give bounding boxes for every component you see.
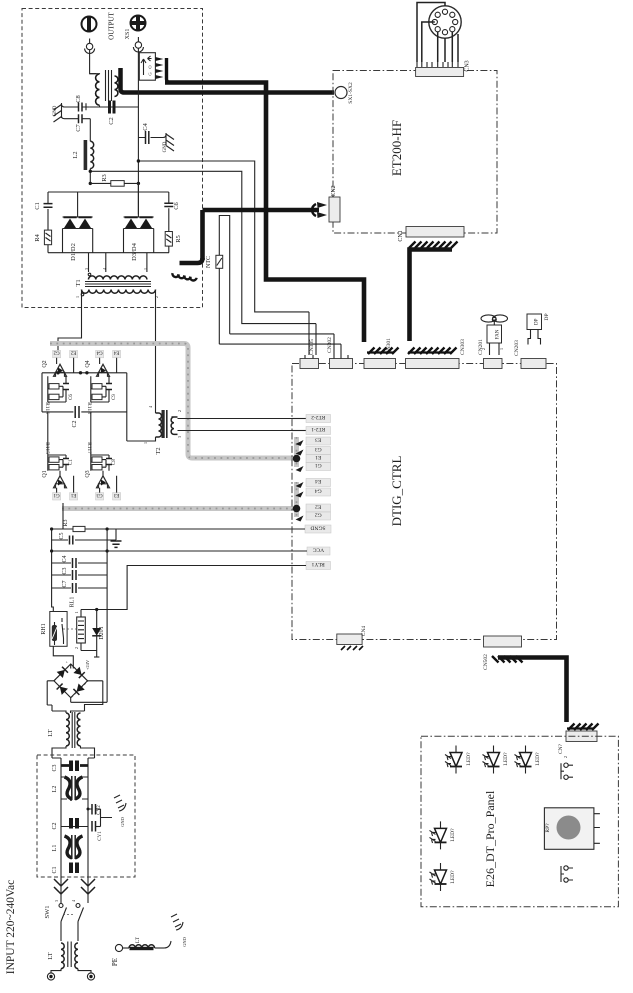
svg-text:G2: G2	[53, 350, 60, 355]
svg-text:RLY1: RLY1	[311, 561, 324, 567]
input transformer LT	[47, 942, 91, 974]
DTIG_CTRL board box	[292, 364, 557, 640]
svg-text:E4: E4	[113, 350, 119, 355]
thick cable CN1 to CN303	[410, 250, 453, 342]
svg-text:RP?: RP?	[545, 823, 551, 833]
svg-text:CN?: CN?	[558, 743, 564, 754]
gray harness vertical at DTIG edge	[294, 437, 299, 517]
svg-text:C8: C8	[75, 95, 82, 103]
panel connector CN	[558, 731, 597, 754]
row VCC	[52, 550, 307, 552]
connector CN502	[483, 636, 522, 670]
svg-text:L1: L1	[52, 845, 58, 852]
svg-text:C3: C3	[52, 764, 58, 771]
power switch SW1	[44, 899, 84, 941]
row C3	[52, 574, 108, 576]
thick cable XS1 to CN301	[165, 83, 364, 343]
rectifier top rail	[48, 191, 169, 193]
hatch fan into panel connector	[568, 724, 599, 731]
signal label VCC	[307, 547, 330, 555]
svg-text:1: 1	[499, 348, 504, 350]
output terminal minus	[82, 17, 97, 32]
node dots	[137, 159, 140, 162]
wire T1 primary right down to T2 pin4	[155, 300, 157, 408]
jack terminal 1	[85, 39, 95, 54]
svg-text:T1: T1	[75, 279, 82, 286]
svg-text:DP: DP	[544, 313, 550, 320]
signal label G4	[296, 492, 304, 498]
svg-text:VCC: VCC	[313, 547, 325, 553]
snubber Q3	[91, 455, 117, 471]
thick cable T1 curl to CN2	[203, 210, 320, 260]
wire RLY1 from relay	[81, 566, 306, 610]
PE choke LT	[129, 936, 164, 950]
thermal relay RH1	[41, 612, 77, 647]
svg-text:2: 2	[563, 756, 568, 758]
svg-text:LED?: LED?	[466, 752, 472, 766]
connector CN203	[514, 340, 546, 369]
capacitor C2 bold	[100, 101, 139, 114]
signal label G1	[296, 466, 304, 472]
transformer T2	[127, 405, 306, 455]
connector CN302	[327, 337, 353, 369]
svg-text:SX1-SX2: SX1-SX2	[348, 82, 354, 104]
svg-text:RL1: RL1	[70, 597, 76, 608]
hatch fan into CN303	[408, 348, 457, 355]
HF transformer L3	[90, 70, 118, 107]
svg-text:C2: C2	[108, 117, 115, 125]
curl of HF cable at T1	[180, 258, 203, 263]
DC bus left	[52, 529, 54, 612]
svg-text:2: 2	[74, 647, 79, 649]
svg-text:LED?: LED?	[503, 752, 509, 766]
svg-text:R3: R3	[63, 519, 69, 526]
thick cable CN502 to panel	[498, 658, 567, 723]
common mode choke L1 bold	[65, 835, 83, 859]
LED 3	[515, 746, 532, 774]
signal ground	[111, 541, 122, 547]
svg-text:CN303: CN303	[460, 339, 466, 355]
svg-text:C6: C6	[69, 394, 74, 400]
svg-text:T2: T2	[155, 447, 162, 454]
hatch fan into CN301	[368, 348, 399, 355]
transformer T1	[75, 253, 159, 300]
svg-text:C7: C7	[75, 123, 82, 131]
ET200-HF board box	[333, 71, 497, 234]
svg-text:G1: G1	[315, 462, 322, 468]
svg-text:C1: C1	[69, 459, 74, 465]
svg-text:C6: C6	[173, 201, 180, 209]
signal label E3	[296, 440, 304, 446]
wire jack1 down	[90, 50, 96, 74]
svg-text:C3: C3	[62, 567, 68, 574]
inductor L2	[84, 119, 94, 184]
svg-text:E3: E3	[315, 437, 321, 443]
X capacitor C1	[69, 863, 79, 874]
wire T1 primary left down to bridge	[58, 300, 82, 352]
XS1 pin wedges	[155, 57, 163, 79]
emitter bus left to caps	[62, 503, 64, 529]
svg-text:Q3: Q3	[85, 470, 91, 477]
signal label E4	[296, 482, 304, 488]
svg-text:CY2: CY2	[97, 805, 102, 815]
gray harness tape top band to E1/G1 group	[50, 344, 293, 459]
bridge AC wires to LT choke	[47, 681, 52, 711]
svg-text:C4: C4	[62, 555, 68, 562]
LED 5	[430, 863, 447, 891]
svg-text:DP: DP	[535, 318, 540, 325]
svg-text:R5: R5	[175, 235, 182, 243]
wedges into CN2	[317, 202, 327, 218]
svg-text:LED?: LED?	[450, 870, 456, 884]
svg-text:RT2-1: RT2-1	[311, 426, 325, 432]
row C4	[52, 562, 108, 564]
svg-text:C9: C9	[112, 394, 117, 400]
relay coil RL1	[70, 597, 86, 651]
wire sense row y161	[138, 161, 309, 312]
SX1-SX2 input	[335, 82, 354, 104]
row C5 to signal ground	[52, 529, 116, 540]
snubber Q1	[48, 455, 74, 471]
round 8 pin connector	[417, 3, 461, 63]
wire sense row y171	[90, 171, 316, 323]
svg-text:1: 1	[74, 611, 79, 613]
double diode D1/D2	[63, 192, 93, 253]
resistor R4	[44, 230, 51, 253]
svg-text:CY1: CY1	[98, 831, 103, 841]
diode D201	[92, 608, 105, 651]
EMI internal wires	[52, 758, 95, 877]
svg-text:1: 1	[75, 296, 80, 298]
signal label E1 with junction	[293, 455, 301, 463]
connector CN305	[300, 339, 319, 369]
XS1 connector	[139, 53, 155, 80]
svg-text:SW1: SW1	[44, 906, 51, 919]
signal label RLY1	[306, 562, 331, 570]
signal label G2	[296, 516, 304, 522]
svg-text:3: 3	[54, 900, 59, 902]
svg-text:C1: C1	[52, 866, 58, 873]
svg-text:G2: G2	[315, 512, 322, 518]
svg-text:E2: E2	[70, 350, 76, 355]
svg-text:G4: G4	[96, 350, 103, 355]
svg-text:DTIG_CTRL: DTIG_CTRL	[389, 456, 404, 527]
DC bus right	[106, 529, 108, 698]
svg-text:XS1: XS1	[125, 29, 131, 40]
svg-text:E4: E4	[315, 478, 321, 484]
svg-text:D201: D201	[99, 626, 105, 639]
connector CN301	[364, 338, 396, 369]
svg-text:C2: C2	[52, 822, 58, 829]
connector CN4	[337, 626, 367, 650]
svg-text:LED?: LED?	[450, 828, 456, 842]
svg-text:CN301: CN301	[386, 338, 392, 354]
capacitor C7	[70, 114, 90, 123]
svg-text:GND: GND	[120, 816, 125, 826]
svg-text:D1/D2: D1/D2	[70, 243, 77, 261]
quick connect chevrons	[54, 879, 95, 894]
gray harness tape bottom band to E2/G2 group	[62, 506, 293, 511]
bridge rectifier diamond	[47, 660, 103, 702]
svg-text:1: 1	[143, 268, 148, 270]
svg-text:+24V: +24V	[85, 659, 90, 670]
connector CN3	[416, 60, 471, 76]
svg-text:INPUT 220~240Vac: INPUT 220~240Vac	[5, 880, 17, 975]
output section dashed box	[22, 9, 203, 308]
signal label E2 with junction	[293, 505, 301, 513]
signal label RT2-1	[292, 430, 306, 432]
RH1 to bridge plus	[53, 646, 73, 668]
svg-text:C4: C4	[142, 122, 149, 130]
capacitor C1	[44, 192, 53, 230]
svg-text:CN502: CN502	[483, 654, 489, 670]
LED 4	[430, 821, 447, 849]
push button 2	[561, 866, 573, 882]
connector CN1	[398, 227, 464, 242]
svg-text:NTC: NTC	[206, 256, 212, 268]
hatch cable under CN1	[409, 242, 458, 249]
svg-text:E1: E1	[315, 454, 321, 460]
thin wire RT2 rows from T2 handled above; SGND VCC RLY1 rows reach box edge	[292, 529, 307, 566]
svg-text:G4: G4	[315, 488, 322, 494]
hatch fan under CN502	[492, 656, 523, 663]
LED 1	[445, 746, 462, 774]
svg-text:3: 3	[84, 268, 89, 270]
svg-text:GND: GND	[53, 105, 58, 116]
svg-text:LED?: LED?	[535, 752, 541, 766]
svg-text:L2: L2	[52, 786, 58, 793]
DP switch	[527, 313, 550, 344]
resistor R5	[165, 232, 172, 253]
PE terminal	[111, 944, 129, 966]
svg-text:RH1: RH1	[41, 623, 47, 634]
E26 DT Pro Panel board box	[421, 736, 618, 906]
svg-text:Q1: Q1	[42, 470, 48, 477]
capacitor C8	[70, 103, 90, 112]
double diode D3/D4	[124, 183, 154, 252]
svg-text:2: 2	[154, 296, 159, 298]
rail to +24V	[81, 651, 97, 658]
svg-text:LT: LT	[47, 952, 54, 959]
svg-text:3: 3	[177, 436, 182, 438]
connector CN303	[406, 339, 467, 369]
IGBT Q4	[85, 350, 121, 377]
wire node under transformer	[90, 106, 130, 108]
svg-text:OUTPUT: OUTPUT	[108, 11, 116, 39]
svg-text:L2: L2	[72, 151, 79, 158]
signal label RT2-2	[292, 418, 306, 420]
svg-text:E26_DT_Pro_Panel: E26_DT_Pro_Panel	[483, 790, 497, 887]
Y capacitors CY2 CY1	[61, 795, 126, 841]
bridge collector rail	[42, 372, 127, 374]
svg-text:1: 1	[143, 442, 148, 444]
resistor R3 output	[90, 181, 138, 187]
X capacitor C3	[61, 761, 88, 772]
svg-text:C2: C2	[72, 420, 78, 427]
common mode choke LT	[47, 711, 95, 758]
svg-text:GND: GND	[163, 141, 168, 152]
chassis ground at C4	[160, 133, 167, 145]
capacitor C6	[164, 192, 173, 232]
mid rail with capacitor C2	[42, 411, 127, 413]
common mode choke L2 bold	[61, 776, 88, 800]
svg-text:PE: PE	[111, 958, 119, 966]
fan	[481, 315, 508, 355]
svg-text:CN201: CN201	[478, 339, 484, 355]
snubber Q4 : resistors and cap C9	[91, 376, 117, 402]
input plug terminals	[47, 973, 94, 980]
svg-text:C5: C5	[59, 532, 65, 539]
jack terminal 2	[133, 37, 143, 52]
NTC thermistor	[216, 216, 230, 345]
sense row SGND with resistor R3	[52, 528, 305, 530]
IGBT Q1	[42, 470, 78, 500]
potentiometer RP	[544, 808, 600, 850]
svg-text:R3: R3	[101, 174, 108, 182]
svg-text:CN305: CN305	[309, 339, 315, 355]
output terminal plus	[131, 16, 146, 31]
capacitor C4	[138, 131, 159, 144]
svg-text:RT2-2: RT2-2	[311, 414, 325, 420]
connector CN2	[329, 185, 340, 222]
svg-text:D3/D4: D3/D4	[131, 242, 138, 260]
IGBT Q2	[42, 350, 78, 377]
chassis ground at PE	[164, 914, 187, 948]
svg-text:CN3: CN3	[465, 60, 471, 71]
svg-text:C7: C7	[62, 580, 68, 587]
EMI filter dashed box	[37, 755, 135, 877]
svg-text:2: 2	[177, 410, 182, 412]
svg-text:CN4: CN4	[361, 626, 367, 637]
connector CN201	[478, 339, 502, 369]
svg-text:FAN: FAN	[496, 329, 501, 339]
X capacitor C2	[69, 818, 79, 829]
chassis ground near C7 C8	[62, 103, 71, 119]
svg-text:Q4: Q4	[85, 360, 91, 367]
svg-text:SGND: SGND	[310, 525, 325, 531]
svg-text:C1: C1	[34, 202, 41, 210]
thick one-turn bar of HF transformer / cable to SX1-SX2	[121, 68, 335, 93]
NTC wires to CN302	[219, 334, 341, 344]
svg-text:R115: R115	[44, 442, 50, 454]
row C7	[52, 587, 108, 589]
svg-text:CN2: CN2	[331, 185, 337, 196]
signal label SGND	[305, 525, 331, 533]
svg-text:CN302: CN302	[327, 337, 333, 353]
LED 2	[483, 746, 500, 774]
svg-text:C8: C8	[112, 459, 117, 465]
svg-text:LT: LT	[135, 936, 141, 943]
svg-text:LT: LT	[47, 729, 54, 736]
IGBT Q3	[85, 470, 121, 500]
signal label G3	[296, 450, 304, 456]
svg-text:G3: G3	[315, 446, 322, 452]
svg-text:CN203: CN203	[514, 340, 520, 356]
svg-text:E2: E2	[315, 504, 321, 510]
svg-text:Q2: Q2	[42, 360, 48, 367]
svg-text:GND: GND	[182, 936, 187, 946]
svg-text:R4: R4	[34, 233, 41, 241]
push button 1	[561, 763, 573, 779]
snubber Q2 : resistors and cap C6	[48, 376, 74, 402]
wire jack2 down XS1 net	[137, 48, 139, 215]
svg-text:ET200-HF: ET200-HF	[389, 120, 404, 176]
svg-text:CN1: CN1	[398, 230, 404, 241]
rectifier bottom rail	[48, 252, 169, 254]
